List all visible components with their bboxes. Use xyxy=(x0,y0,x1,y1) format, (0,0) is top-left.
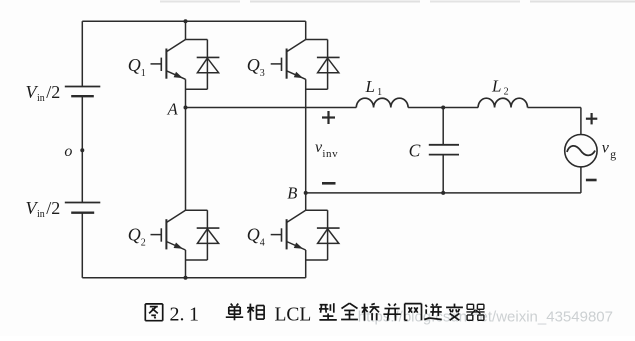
svg-text:o: o xyxy=(64,143,72,160)
svg-text:2.1: 2.1 xyxy=(170,303,200,325)
svg-text:LCL: LCL xyxy=(275,304,312,325)
svg-text:C: C xyxy=(409,140,421,160)
svg-text:B: B xyxy=(287,184,297,203)
svg-text:A: A xyxy=(167,99,179,118)
